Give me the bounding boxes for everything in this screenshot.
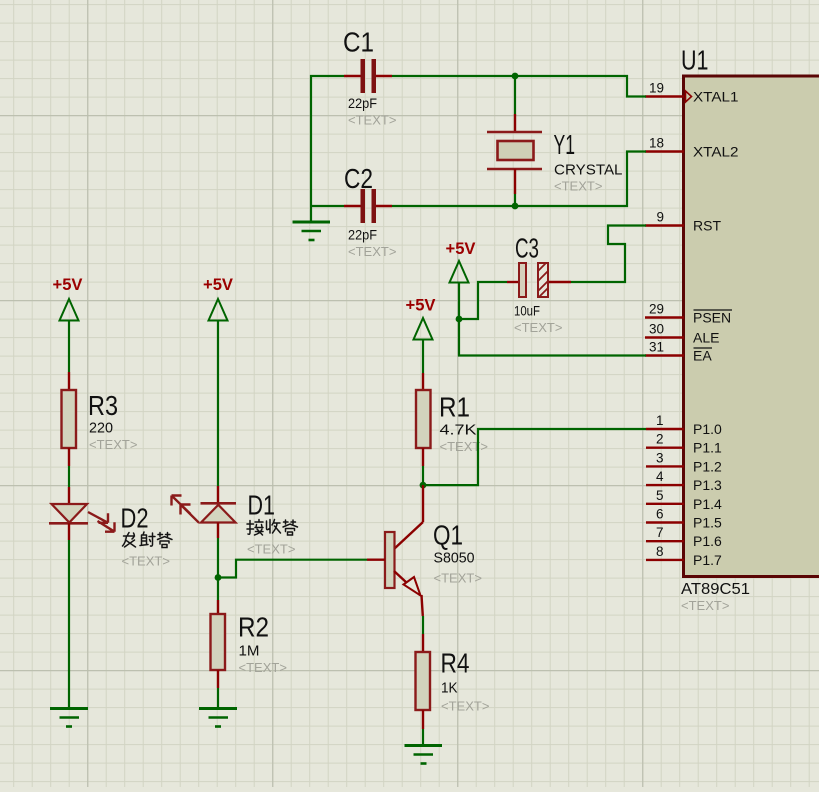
svg-text:P1.4: P1.4 — [693, 496, 722, 512]
svg-text:ALE: ALE — [693, 330, 719, 346]
svg-text:4.7K: 4.7K — [440, 422, 477, 439]
svg-text:+5V: +5V — [406, 296, 437, 315]
svg-text:R4: R4 — [441, 648, 470, 679]
capacitor C3 10uF electrolytic — [507, 233, 571, 336]
resistor R4 1K — [416, 634, 490, 729]
power +5V (R1 branch) — [406, 296, 437, 340]
svg-text:R2: R2 — [238, 612, 269, 643]
pin 5 P1.4 — [646, 488, 722, 512]
ground (crystal rail) — [293, 222, 331, 240]
svg-text:1: 1 — [656, 413, 664, 428]
pin 1 P1.0 — [646, 413, 722, 437]
svg-text:<TEXT>: <TEXT> — [681, 598, 729, 613]
svg-text:10uF: 10uF — [514, 303, 540, 319]
svg-text:XTAL2: XTAL2 — [693, 144, 739, 160]
wire collector node to pin1 P1.0 — [423, 429, 646, 485]
svg-text:P1.1: P1.1 — [693, 440, 722, 456]
ground (R2) — [199, 709, 237, 727]
power +5V (D1 branch) — [203, 275, 234, 321]
pin 9 RST — [645, 210, 721, 234]
svg-text:31: 31 — [649, 340, 664, 355]
svg-text:<TEXT>: <TEXT> — [514, 320, 562, 335]
crystal Y1 — [487, 114, 623, 194]
svg-text:220: 220 — [89, 420, 113, 437]
svg-text:C2: C2 — [344, 163, 373, 194]
svg-text:Y1: Y1 — [554, 129, 576, 160]
svg-text:AT89C51: AT89C51 — [681, 581, 750, 598]
wire emitter to R4 — [422, 616, 424, 634]
svg-text:<TEXT>: <TEXT> — [348, 113, 396, 128]
svg-text:5: 5 — [656, 488, 664, 503]
ground (R4) — [405, 746, 443, 764]
svg-text:1M: 1M — [239, 643, 260, 660]
svg-text:<TEXT>: <TEXT> — [554, 179, 602, 194]
wire R3 to D2 — [68, 466, 70, 487]
junction node C1/XTAL1 — [512, 73, 519, 80]
svg-text:EA: EA — [693, 348, 712, 364]
pin 4 P1.3 — [646, 469, 722, 493]
svg-text:P1.5: P1.5 — [693, 515, 722, 531]
svg-text:29: 29 — [649, 302, 664, 317]
pin 3 P1.2 — [646, 450, 722, 474]
junction node reset net — [456, 316, 463, 323]
capacitor C1 22pF — [343, 27, 396, 128]
svg-text:P1.6: P1.6 — [693, 533, 722, 549]
LED D1 (receiver diode) — [172, 486, 298, 557]
wire crystal top — [514, 76, 516, 114]
svg-text:C1: C1 — [343, 27, 374, 58]
svg-text:D1: D1 — [248, 490, 276, 521]
wire +5V to R1 — [422, 340, 424, 374]
svg-text:R3: R3 — [88, 390, 118, 421]
svg-text:P1.3: P1.3 — [693, 477, 722, 493]
wire R1 to collector junction — [422, 466, 424, 485]
svg-text:Q1: Q1 — [433, 520, 463, 551]
svg-text:19: 19 — [649, 81, 664, 96]
svg-text:R1: R1 — [439, 392, 470, 423]
svg-text:CRYSTAL: CRYSTAL — [554, 162, 623, 179]
svg-text:S8050: S8050 — [434, 550, 475, 567]
wire C1 output to pin19 — [392, 76, 646, 97]
svg-text:7: 7 — [656, 525, 664, 540]
resistor R3 220 — [62, 372, 138, 466]
svg-text:6: 6 — [656, 507, 664, 522]
ground (D2) — [50, 709, 88, 727]
pin 29 PSEN — [645, 302, 732, 326]
pin 19 XTAL1 — [645, 81, 739, 105]
wire R2 to ground — [217, 688, 219, 709]
svg-text:+5V: +5V — [446, 239, 477, 258]
pin 30 ALE — [645, 322, 719, 346]
wire +5V to D1 — [217, 321, 219, 487]
svg-text:30: 30 — [649, 322, 664, 337]
pin 2 P1.1 — [646, 432, 722, 456]
svg-text:+5V: +5V — [53, 275, 84, 294]
svg-text:22pF: 22pF — [348, 227, 377, 243]
transistor Q1 S8050 — [367, 485, 482, 616]
pin 6 P1.5 — [646, 507, 722, 531]
svg-text:+5V: +5V — [203, 275, 234, 294]
junction node collector/R1 — [420, 482, 427, 489]
power +5V (R3 branch) — [53, 275, 84, 321]
wire C2-left to ground rail — [311, 205, 344, 207]
svg-text:<TEXT>: <TEXT> — [247, 542, 295, 557]
svg-text:<TEXT>: <TEXT> — [239, 660, 287, 675]
wire Q1 base wire from D1/R2 node — [218, 560, 367, 578]
resistor R2 1M — [211, 600, 287, 688]
wire crystal bottom — [514, 194, 516, 206]
wire C3 to +5V node — [459, 282, 507, 319]
junction node C2/XTAL2 — [512, 203, 519, 210]
svg-text:1K: 1K — [441, 680, 458, 697]
svg-text:<TEXT>: <TEXT> — [434, 571, 482, 586]
svg-text:<TEXT>: <TEXT> — [122, 554, 170, 569]
wire C2 output to pin18 — [392, 152, 646, 207]
wire D2 to ground — [68, 540, 70, 709]
pin 7 P1.6 — [646, 525, 722, 549]
value label 接收管 — [247, 520, 298, 536]
svg-text:P1.7: P1.7 — [693, 552, 722, 568]
svg-text:8: 8 — [656, 544, 664, 559]
svg-text:<TEXT>: <TEXT> — [441, 699, 489, 714]
svg-text:22pF: 22pF — [348, 95, 377, 111]
svg-text:4: 4 — [656, 469, 664, 484]
power +5V (reset) — [446, 239, 477, 319]
wire D1 to R2 — [217, 538, 219, 600]
svg-text:<TEXT>: <TEXT> — [89, 437, 137, 452]
svg-text:3: 3 — [656, 450, 664, 465]
svg-text:XTAL1: XTAL1 — [693, 89, 739, 105]
LED D2 (emitter diode) — [49, 487, 172, 569]
svg-text:2: 2 — [656, 432, 664, 447]
wire R4 to ground — [422, 729, 424, 746]
pin 18 XTAL2 — [645, 136, 739, 160]
resistor R1 4.7K — [416, 373, 488, 466]
wire to pin31 EA — [459, 319, 646, 356]
wire +5V to R3 — [68, 321, 70, 373]
pin 8 P1.7 — [646, 544, 722, 568]
value label 发射管 — [123, 532, 173, 548]
svg-text:PSEN: PSEN — [693, 310, 731, 326]
svg-text:D2: D2 — [121, 503, 149, 534]
svg-text:RST: RST — [693, 218, 721, 234]
capacitor C2 22pF — [344, 163, 396, 259]
svg-text:P1.2: P1.2 — [693, 458, 722, 474]
svg-text:U1: U1 — [681, 45, 709, 76]
svg-text:<TEXT>: <TEXT> — [440, 439, 488, 454]
wire C1-left to ground rail — [311, 76, 344, 222]
svg-text:C3: C3 — [515, 233, 539, 264]
svg-text:<TEXT>: <TEXT> — [348, 244, 396, 259]
junction node base/D1/R2 — [215, 574, 222, 581]
svg-text:9: 9 — [656, 210, 664, 225]
svg-text:18: 18 — [649, 136, 664, 151]
wire RST staircase to C3 — [571, 226, 646, 283]
IC U1 AT89C51 body — [681, 45, 819, 614]
svg-text:P1.0: P1.0 — [693, 421, 722, 437]
pin 31 EA — [645, 340, 712, 364]
